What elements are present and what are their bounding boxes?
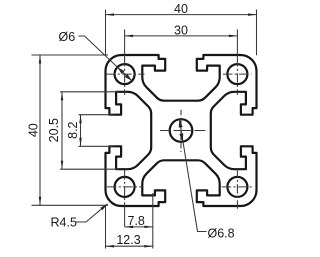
centerline: bottom-left hole vertical (merged with 7.8-dim extension) <box>124 170 126 227</box>
dimension 7.8 (hole center to slot wall): dim line, arrows <box>125 193 153 249</box>
svg-text:30: 30 <box>174 23 188 37</box>
centerline: center hole horizontal <box>160 130 206 132</box>
dimension 30 (between corner hole centers): dim line, arrows <box>125 35 238 38</box>
centerline: top-left hole vertical (merged with 30-dim extension) <box>124 30 126 96</box>
leader Ø6: polyline from label through top-left corner hole, diameter arrows <box>79 36 132 81</box>
svg-text:40: 40 <box>26 123 40 137</box>
centerline: bottom-left hole horizontal <box>107 186 141 188</box>
centerline: top-left hole horizontal <box>106 73 145 75</box>
svg-text:8.2: 8.2 <box>66 121 80 138</box>
svg-text:40: 40 <box>174 2 188 16</box>
corner hole bottom-right (Ø6 bore) <box>227 177 247 197</box>
centerline: center hole vertical <box>180 110 182 152</box>
profile outline: 40x40 T-slot aluminium extrusion cross-section <box>106 55 257 206</box>
centerline: top-right hole horizontal <box>223 73 252 75</box>
corner hole bottom-left (Ø6 bore) <box>115 177 135 197</box>
dimension 8.2 (slot opening): extension lines, dim line, arrows <box>79 115 114 147</box>
corner hole top-left (Ø6 bore) <box>115 64 135 84</box>
center hole (Ø6.8 bore) <box>170 119 193 142</box>
centerline: bottom-right hole horizontal <box>222 186 254 188</box>
svg-text:R4.5: R4.5 <box>51 215 77 229</box>
dimension 12.3 (edge to slot wall): extension line, dim line, arrows <box>106 206 153 249</box>
svg-text:20.5: 20.5 <box>47 118 61 142</box>
svg-text:Ø6: Ø6 <box>59 30 76 44</box>
dimension 40 (left height): extension lines, dim line, arrows <box>32 55 109 205</box>
leader Ø6.8: polyline from label through center hole, diameter arrows <box>179 119 207 231</box>
leader R4.5: polyline from label to bottom-left corner radius, arrow <box>76 204 108 222</box>
dimension 40 (top width): extension lines, dim line, arrows, text <box>106 10 257 56</box>
svg-text:7.8: 7.8 <box>128 214 145 228</box>
centerline: bottom-right hole vertical <box>236 168 238 209</box>
dimension 20.5 (slot cavity width): extension lines, dim line, arrows <box>60 92 119 169</box>
svg-text:Ø6.8: Ø6.8 <box>208 226 235 240</box>
corner hole top-right (Ø6 bore) <box>227 64 247 84</box>
svg-text:12.3: 12.3 <box>116 233 140 247</box>
centerline: top-right hole vertical (merged with 30-dim extension) <box>236 30 238 96</box>
